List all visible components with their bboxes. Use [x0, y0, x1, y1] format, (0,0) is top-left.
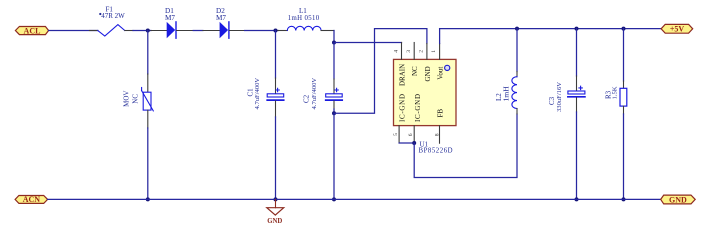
- svg-text:BP85226D: BP85226D: [419, 147, 454, 154]
- svg-text:DRAIN: DRAIN: [399, 64, 407, 86]
- wire node down to C2: [333, 43, 335, 80]
- svg-text:NC: NC: [132, 94, 140, 104]
- diode D1: [151, 7, 193, 38]
- capacitor C3: [548, 76, 585, 112]
- pin 2 stub: [426, 44, 428, 60]
- wire ACL to F1: [49, 30, 98, 32]
- svg-text:ACL: ACL: [24, 26, 41, 35]
- svg-text:IC-GND: IC-GND: [399, 93, 407, 122]
- wire pin 1 Vout riser: [439, 29, 441, 44]
- svg-text:8: 8: [435, 133, 441, 136]
- wire C3 upper: [576, 29, 578, 76]
- port +5V: [661, 24, 693, 33]
- svg-text:330uF/16V: 330uF/16V: [556, 82, 563, 112]
- svg-text:FB: FB: [437, 109, 445, 118]
- svg-text:5: 5: [393, 133, 399, 136]
- svg-text:1: 1: [431, 50, 437, 53]
- junction pin 5/6 node: [412, 141, 416, 145]
- svg-text:MOV: MOV: [122, 91, 130, 107]
- inductor L1: [278, 7, 334, 30]
- junction R3 top: [622, 27, 626, 31]
- junction C1 bottom / GND: [274, 197, 278, 201]
- wire R3 upper: [623, 29, 625, 81]
- wire IC-GND down and right to L2 bottom: [414, 114, 517, 178]
- svg-text:M7: M7: [216, 14, 226, 22]
- wire F1 to D1: [133, 30, 151, 32]
- svg-text:1mH 0510: 1mH 0510: [288, 15, 320, 22]
- varistor MOV: [122, 74, 153, 128]
- svg-text:1.5K: 1.5K: [612, 86, 619, 99]
- svg-text:6: 6: [408, 133, 414, 136]
- wire +5V rail: [440, 28, 661, 30]
- port GND: [661, 195, 696, 204]
- wire L1 corner down to node: [333, 31, 335, 43]
- svg-text:3: 3: [406, 50, 412, 53]
- junction C3 bottom: [575, 197, 579, 201]
- wire pins 5-6 join: [399, 142, 414, 144]
- wire C2 bottom to GND junction: [333, 109, 335, 113]
- pin 8 stub: [439, 126, 441, 144]
- inductor L2: [495, 72, 517, 115]
- svg-text:M7: M7: [165, 14, 175, 22]
- junction MOV tap on top rail: [146, 29, 150, 33]
- IC U1 BP85226D body: [394, 59, 457, 125]
- svg-text:+5V: +5V: [670, 25, 685, 34]
- Vout pin1 marker circle: [445, 65, 450, 70]
- svg-text:4: 4: [394, 50, 400, 53]
- wire GND node to pin2 riser: [334, 29, 427, 114]
- wire C1 upper: [275, 31, 277, 79]
- wire MOV branch upper: [147, 31, 149, 75]
- resistor R3: [605, 81, 627, 114]
- svg-text:2: 2: [419, 50, 425, 53]
- port ACL: [15, 26, 48, 35]
- wire R3 lower: [623, 114, 625, 199]
- svg-text:ACN: ACN: [23, 195, 41, 204]
- wire L2 upper: [516, 29, 518, 72]
- junction C2 bottom GND node: [332, 111, 336, 115]
- capacitor C1: [246, 78, 283, 117]
- wire node to pin 4: [334, 42, 402, 44]
- ground GND symbol: [267, 199, 284, 225]
- wire C2 node down to bottom rail: [333, 113, 335, 199]
- wire D2 to C1 node: [245, 30, 278, 32]
- wire C3 lower: [576, 112, 578, 199]
- junction L2 top: [515, 27, 519, 31]
- pin 3 stub: [413, 43, 415, 60]
- junction C1 tap: [274, 29, 278, 33]
- port ACN: [15, 195, 48, 204]
- pin 1 stub: [439, 44, 441, 60]
- fuse F1: [89, 5, 133, 36]
- svg-text:Vout: Vout: [436, 67, 444, 80]
- wire C1 to bottom rail: [275, 117, 277, 199]
- svg-text:C2: C2: [303, 94, 311, 103]
- pin 4 stub: [401, 43, 403, 60]
- svg-text:4.7uF/400V: 4.7uF/400V: [311, 78, 318, 110]
- svg-text:GND: GND: [669, 195, 687, 204]
- svg-text:GND: GND: [267, 218, 282, 225]
- wire D1 to D2: [193, 30, 203, 32]
- wire MOV to bottom rail: [147, 128, 149, 199]
- capacitor C2: [303, 78, 343, 110]
- svg-text:NC: NC: [411, 66, 419, 76]
- pin 5 stub: [398, 126, 400, 143]
- junction C3 top: [575, 27, 579, 31]
- svg-text:GND: GND: [424, 66, 432, 81]
- junction MOV bottom rail: [146, 197, 150, 201]
- svg-text:4.7uF/400V: 4.7uF/400V: [254, 78, 261, 110]
- junction L1/C2/pin4 node: [332, 41, 336, 45]
- diode D2: [203, 7, 245, 38]
- pin 6 stub: [413, 126, 415, 143]
- svg-text:47R 2W: 47R 2W: [101, 12, 125, 20]
- junction C2 bottom rail: [332, 197, 336, 201]
- wire bottom rail: [48, 198, 661, 200]
- junction R3 bottom: [622, 197, 626, 201]
- svg-text:IC-GND: IC-GND: [414, 93, 422, 122]
- svg-text:1mH: 1mH: [502, 86, 511, 102]
